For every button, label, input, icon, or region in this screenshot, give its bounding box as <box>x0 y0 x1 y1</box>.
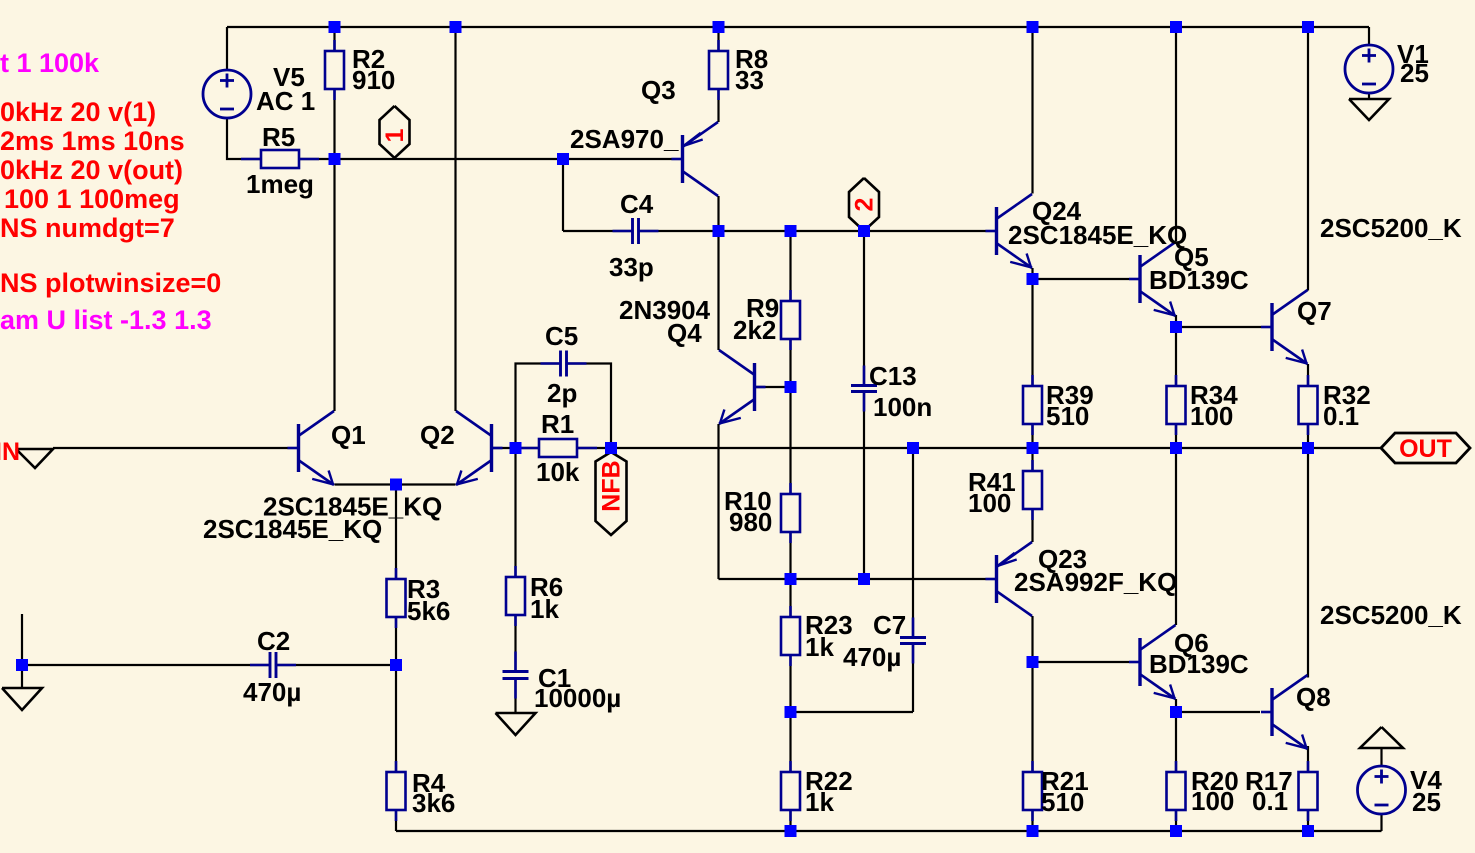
resistor R20 <box>1167 761 1186 821</box>
junction <box>713 225 725 237</box>
power flag V4 <box>1360 727 1403 748</box>
svg-text:t 1 100k: t 1 100k <box>0 48 100 78</box>
wire Q8 collector <box>1307 448 1309 678</box>
svg-text:C2: C2 <box>257 626 290 656</box>
resistor R6 <box>506 566 525 626</box>
svg-text:2SA992F_KQ: 2SA992F_KQ <box>1014 567 1177 597</box>
wire R20 bottom lead <box>1175 810 1177 831</box>
wire R39 top lead <box>1031 279 1033 385</box>
wire node1 drop to C4 <box>562 159 564 231</box>
junction <box>605 442 617 454</box>
ground under C1 <box>496 713 536 735</box>
svg-text:C4: C4 <box>620 189 654 219</box>
svg-text:Q2: Q2 <box>420 420 455 450</box>
svg-text:NS numdgt=7: NS numdgt=7 <box>0 213 175 243</box>
junction <box>1027 656 1039 668</box>
junction <box>16 659 28 671</box>
transistor Q4 <box>719 350 766 424</box>
wire Q6 emitter to Q8 base <box>1176 711 1260 713</box>
net flag NFB <box>596 452 627 535</box>
wire R39 bottom lead <box>1031 424 1033 448</box>
wire V1 top lead <box>1368 27 1370 45</box>
wire V5 to R5 <box>227 118 261 159</box>
svg-text:0.1: 0.1 <box>1252 786 1288 816</box>
junction <box>1170 825 1182 837</box>
wire R6 top lead <box>514 448 516 577</box>
svg-text:100: 100 <box>1190 401 1233 431</box>
svg-text:910: 910 <box>352 65 395 95</box>
wire Q1-Q2 emitters <box>335 483 456 485</box>
svg-text:2: 2 <box>851 198 879 212</box>
resistor R2 <box>325 40 344 100</box>
svg-text:1meg: 1meg <box>246 169 314 199</box>
svg-text:C7: C7 <box>873 610 906 640</box>
junction <box>329 153 341 165</box>
svg-text:BD139C: BD139C <box>1149 649 1249 679</box>
svg-text:NS plotwinsize=0: NS plotwinsize=0 <box>0 268 221 298</box>
capacitor C13 <box>851 366 877 412</box>
wire C1 to ground <box>514 680 516 714</box>
wire R21 top lead <box>1031 662 1033 772</box>
junction <box>1302 21 1314 33</box>
svg-text:510: 510 <box>1041 787 1084 817</box>
wire R41 to Q23 emitter <box>1031 509 1033 542</box>
junction <box>1027 273 1039 285</box>
svg-text:AC 1: AC 1 <box>256 86 315 116</box>
capacitor C4 <box>613 218 659 244</box>
svg-text:33p: 33p <box>609 252 654 282</box>
resistor R9 <box>781 290 800 350</box>
svg-text:2p: 2p <box>547 378 577 408</box>
junction <box>390 659 402 671</box>
resistor R34 <box>1167 375 1186 435</box>
wire R41 top lead <box>1031 448 1033 471</box>
transistor Q24 <box>986 194 1033 268</box>
resistor R10 <box>781 483 800 543</box>
svg-text:1k: 1k <box>805 632 834 662</box>
wire Q4 base <box>756 386 791 388</box>
wire Q4 emitter drop <box>717 424 719 579</box>
junction <box>390 479 402 491</box>
resistor R5 <box>241 150 319 168</box>
wire V5 top lead <box>226 27 228 70</box>
wire R6 to C1 <box>514 615 516 671</box>
transistor Q1 <box>288 411 335 485</box>
junction <box>785 381 797 393</box>
svg-text:2SA970_: 2SA970_ <box>570 124 679 154</box>
svg-text:Q8: Q8 <box>1296 682 1331 712</box>
wire left stub <box>21 614 23 665</box>
wire R4 bottom lead <box>395 810 397 831</box>
wire Q5 collector <box>1175 27 1177 241</box>
wire emitters to R3 <box>395 485 397 580</box>
svg-text:C13: C13 <box>869 361 917 391</box>
wire R22 top lead <box>789 712 791 772</box>
junction <box>1302 442 1314 454</box>
svg-text:33: 33 <box>735 65 764 95</box>
junction <box>1170 706 1182 718</box>
svg-text:0.1: 0.1 <box>1323 401 1359 431</box>
junction <box>785 225 797 237</box>
junction <box>858 573 870 585</box>
junction <box>510 442 522 454</box>
svg-text:2ms 1ms 10ns: 2ms 1ms 10ns <box>0 126 185 156</box>
transistor Q6 <box>1129 625 1176 699</box>
wire R5 to Q3 base rail <box>300 158 672 160</box>
svg-text:2k2: 2k2 <box>733 315 776 345</box>
junction <box>329 21 341 33</box>
svg-text:100 1 100meg: 100 1 100meg <box>4 184 180 214</box>
wire C2 left <box>22 664 269 666</box>
svg-text:NFB: NFB <box>598 460 626 511</box>
wire R10 top lead <box>789 387 791 494</box>
wire R23 top lead <box>789 579 791 616</box>
wire Q4 emitter to Q23 base <box>719 578 987 580</box>
wire C5 loop left <box>516 364 560 449</box>
svg-text:1k: 1k <box>805 787 834 817</box>
svg-text:Q7: Q7 <box>1297 296 1332 326</box>
wire V4 flag stem <box>1380 747 1382 766</box>
capacitor C2 <box>250 652 296 678</box>
wire R20 top lead <box>1175 712 1177 772</box>
svg-text:25: 25 <box>1412 787 1441 817</box>
wire R23 bottom lead <box>789 655 791 712</box>
svg-text:5k6: 5k6 <box>407 596 450 626</box>
voltage source V5 <box>203 70 251 118</box>
ground under V1 <box>1349 99 1389 120</box>
junction <box>1302 825 1314 837</box>
voltage source V4 <box>1358 766 1406 814</box>
wire Q24 collector <box>1031 27 1033 194</box>
svg-text:Q1: Q1 <box>331 420 366 450</box>
wire Q6 emitter stub <box>1175 699 1177 712</box>
wire Q8 emitter to R17 <box>1307 746 1309 772</box>
svg-text:OUT: OUT <box>1399 435 1452 463</box>
wire Q6 collector <box>1175 448 1177 625</box>
resistor R23 <box>781 606 800 666</box>
wire R32 bottom lead <box>1307 424 1309 448</box>
wire R3 to C2 node <box>395 617 397 665</box>
wire R21 bottom lead <box>1031 810 1033 831</box>
junction <box>1027 21 1039 33</box>
wire Q5 emitter to Q7 base <box>1176 326 1261 328</box>
wire R10 bottom lead <box>789 532 791 579</box>
wire V4 bottom lead <box>1380 814 1382 831</box>
wire C4 right to Q24 base <box>640 230 986 232</box>
wire Q3 collector to node <box>717 196 719 231</box>
resistor R41 <box>1023 460 1042 520</box>
wire Q1 collector <box>333 159 335 411</box>
junction <box>785 573 797 585</box>
wire Q23 collector to Q6 base <box>1033 661 1130 663</box>
wire Q24 emitter to Q5 base <box>1033 278 1130 280</box>
wire Q24 emitter stub <box>1031 268 1033 279</box>
svg-text:3k6: 3k6 <box>412 788 455 818</box>
resistor R22 <box>781 761 800 821</box>
svg-text:2SC1845E_KQ: 2SC1845E_KQ <box>1008 220 1187 250</box>
svg-text:1k: 1k <box>530 594 559 624</box>
junction <box>785 825 797 837</box>
junction <box>858 225 870 237</box>
transistor Q7 <box>1261 290 1308 364</box>
wire C13 bottom lead <box>863 393 865 579</box>
wire Q23 collector drop <box>1031 616 1033 662</box>
port IN <box>16 449 53 468</box>
voltage source V1 <box>1345 45 1393 93</box>
wire bottom rail <box>396 830 1382 832</box>
svg-text:1: 1 <box>381 128 409 142</box>
wire R8 to Q3 emitter <box>717 89 719 122</box>
wire C5 loop right <box>568 364 611 449</box>
transistor Q8 <box>1261 675 1308 749</box>
svg-text:10k: 10k <box>536 457 580 487</box>
svg-text:980: 980 <box>729 507 772 537</box>
wire C7 bottom lead <box>912 645 914 712</box>
port OUT <box>1381 433 1470 463</box>
wire Q2 collector <box>454 27 456 411</box>
wire Q2 base to R1 <box>492 447 540 449</box>
svg-text:470µ: 470µ <box>243 677 301 707</box>
svg-text:470µ: 470µ <box>843 642 901 672</box>
svg-text:IN: IN <box>0 438 20 466</box>
wire R9 top lead <box>789 231 791 301</box>
wire R22 bottom lead <box>789 810 791 831</box>
wire C13 top lead <box>863 231 865 384</box>
wire R2 top lead <box>333 27 335 51</box>
junction <box>1170 21 1182 33</box>
junction <box>1027 442 1039 454</box>
wire R34 bottom lead <box>1175 424 1177 448</box>
transistor Q3 <box>672 122 719 196</box>
resistor R3 <box>387 568 406 628</box>
wire Q4 collector <box>717 231 719 350</box>
svg-text:2SC5200_K: 2SC5200_K <box>1320 600 1462 630</box>
wire C7 top lead <box>912 448 914 636</box>
wire left ground stem <box>21 665 23 688</box>
svg-text:am U list -1.3 1.3: am U list -1.3 1.3 <box>0 305 212 335</box>
svg-text:0kHz 20 v(1): 0kHz 20 v(1) <box>0 97 156 127</box>
resistor R4 <box>387 761 406 821</box>
junction <box>1170 442 1182 454</box>
wire Q7 emitter to R32 <box>1307 364 1309 385</box>
wire R9 to Q4 base <box>789 339 791 387</box>
svg-text:100n: 100n <box>873 392 932 422</box>
wire IN to Q1 base <box>53 447 288 449</box>
svg-text:10000µ: 10000µ <box>534 683 621 713</box>
svg-text:R1: R1 <box>541 409 574 439</box>
resistor R32 <box>1299 375 1318 435</box>
wire Q7 collector <box>1307 27 1309 291</box>
svg-text:100: 100 <box>1191 786 1234 816</box>
wire R23-C7 bottom link <box>791 711 914 713</box>
wire C2 right <box>278 664 397 666</box>
net flag node 1 <box>380 106 410 158</box>
svg-text:2SC1845E_KQ: 2SC1845E_KQ <box>203 514 382 544</box>
resistor R39 <box>1023 375 1042 435</box>
resistor R21 <box>1023 761 1042 821</box>
wire C4 left <box>563 230 631 232</box>
svg-text:Q4: Q4 <box>667 318 702 348</box>
junction <box>1170 321 1182 333</box>
capacitor C1 <box>503 652 529 699</box>
junction <box>450 21 462 33</box>
junction <box>1027 825 1039 837</box>
junction <box>907 442 919 454</box>
wire R4 top lead <box>395 665 397 772</box>
transistor Q5 <box>1129 242 1176 316</box>
wire Q5 emitter stub <box>1175 315 1177 327</box>
svg-text:Q3: Q3 <box>641 75 676 105</box>
svg-text:C5: C5 <box>545 321 578 351</box>
junction <box>713 21 725 33</box>
svg-text:510: 510 <box>1046 401 1089 431</box>
junction <box>557 153 569 165</box>
wire top rail <box>227 26 1369 28</box>
wire V1 bottom lead <box>1368 93 1370 99</box>
net flag node 2 <box>849 178 879 231</box>
wire R34 top lead <box>1175 327 1177 385</box>
junction <box>785 706 797 718</box>
svg-text:BD139C: BD139C <box>1149 265 1249 295</box>
capacitor C7 <box>900 618 926 664</box>
ground left <box>2 688 42 710</box>
capacitor C5 <box>541 351 587 377</box>
resistor R8 <box>709 40 728 100</box>
svg-text:2SC5200_K: 2SC5200_K <box>1320 213 1462 243</box>
wire R8 top lead <box>717 27 719 51</box>
transistor Q2 <box>456 411 503 485</box>
wire R1 to OUT <box>577 447 1381 449</box>
transistor Q23 <box>986 542 1033 616</box>
wire R17 bottom lead <box>1307 810 1309 831</box>
svg-text:R5: R5 <box>262 122 295 152</box>
svg-text:0kHz 20 v(out): 0kHz 20 v(out) <box>0 155 183 185</box>
svg-text:100: 100 <box>968 488 1011 518</box>
resistor R1 <box>519 439 597 457</box>
svg-text:25: 25 <box>1400 58 1429 88</box>
wire R2 bottom lead <box>333 89 335 159</box>
resistor R17 <box>1299 761 1318 821</box>
